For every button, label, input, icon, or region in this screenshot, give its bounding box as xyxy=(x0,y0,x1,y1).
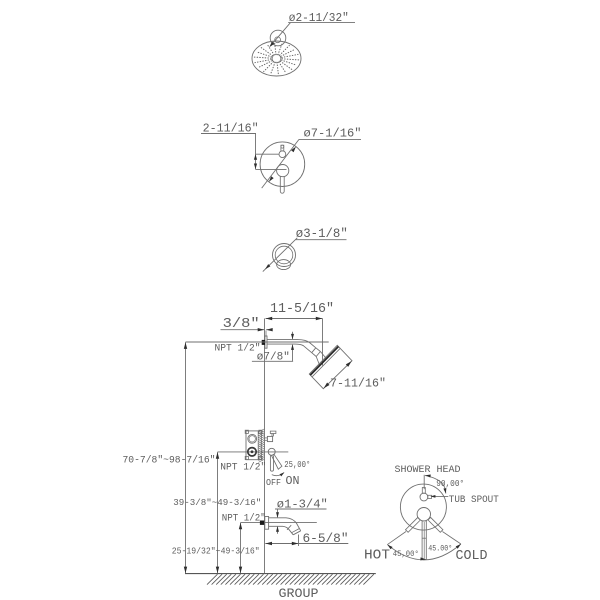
arrow down at ground xyxy=(216,567,219,574)
handle tilted 25 deg (on) position xyxy=(272,454,282,469)
handle vertical position xyxy=(422,521,426,560)
tub spout opening ellipse xyxy=(277,260,291,270)
valve upper port inner circle xyxy=(249,436,255,442)
arrow right at spout tip xyxy=(292,542,299,545)
swing arc arrowhead left xyxy=(387,545,392,550)
tub spout leader line xyxy=(432,495,449,497)
svg-text:GROUP: GROUP xyxy=(279,586,319,600)
spout centerline xyxy=(241,521,317,523)
arrow up at arm height xyxy=(184,342,187,349)
diverter knob link top xyxy=(264,437,267,439)
arrow down at ground xyxy=(184,567,187,574)
arm coupling nut lower edge xyxy=(312,353,317,357)
svg-text:HOT: HOT xyxy=(364,548,390,564)
valve height dimension line xyxy=(217,452,219,573)
svg-text:90,00°: 90,00° xyxy=(436,479,464,489)
svg-text:COLD: COLD xyxy=(456,548,488,564)
handle vertical center line xyxy=(423,522,425,559)
dimension tick up xyxy=(254,154,257,160)
shower arm wall stub (filled) xyxy=(262,340,265,345)
shower arm pipe top line xyxy=(267,340,316,348)
dimension dia 7/8 lower line xyxy=(292,345,294,362)
dimension 6-5/8 line xyxy=(265,543,298,545)
dimension 7-11/16 arrow at right corner xyxy=(346,361,352,367)
svg-text:3/8": 3/8" xyxy=(223,316,260,332)
valve body corner tab top-left xyxy=(245,430,248,433)
valve lower port circle (dark) xyxy=(248,448,256,456)
svg-text:39-3/8"~49-3/16": 39-3/8"~49-3/16" xyxy=(173,497,261,508)
svg-text:SHOWER HEAD: SHOWER HEAD xyxy=(395,464,461,475)
arrow right 11-5/16 xyxy=(316,317,323,320)
90 arc arrowhead bottom xyxy=(443,488,446,493)
arrow up at valve centerline xyxy=(216,452,219,459)
90 deg arc xyxy=(425,475,446,493)
dia 1-3/4 vertical line below pipe xyxy=(277,527,279,534)
svg-text:ON: ON xyxy=(286,475,300,488)
valve lower port center dot xyxy=(251,450,254,453)
diverter stem up xyxy=(422,488,425,494)
tub spout end face inner xyxy=(292,529,300,533)
diverter knob square xyxy=(267,436,272,441)
svg-text:ø7-1/16": ø7-1/16" xyxy=(304,128,362,141)
arrow up at spout pipe bottom xyxy=(276,526,279,532)
tub spout end face outer xyxy=(293,531,301,535)
valve trim plate circle xyxy=(260,142,305,187)
left lever extension line xyxy=(387,532,406,545)
dimension underline dia 7/8 xyxy=(252,360,293,362)
handle hub circle xyxy=(277,165,289,177)
valve centerline xyxy=(218,451,289,453)
svg-text:11-5/16": 11-5/16" xyxy=(270,302,334,317)
shower head face inner line xyxy=(312,349,340,378)
dimension underline dia 1-3/4 xyxy=(275,508,327,510)
valve body corner tab bottom-right xyxy=(259,456,262,459)
valve body corner tab top-right xyxy=(259,430,262,433)
diverter stem xyxy=(281,145,284,151)
diameter leader dia 3-1/8 xyxy=(263,238,298,272)
svg-text:45,00°: 45,00° xyxy=(393,550,419,559)
tub spout wall stub (filled) xyxy=(260,521,264,525)
svg-text:45.00°: 45.00° xyxy=(428,545,452,554)
svg-text:NPT 1/2": NPT 1/2" xyxy=(220,462,266,473)
wall vertical line xyxy=(264,319,266,574)
leader line for dia 2-11/32 xyxy=(271,23,291,46)
arm ball flare upper edge xyxy=(320,352,326,359)
svg-text:25,00°: 25,00° xyxy=(284,459,310,470)
dimension 3/8 line left part xyxy=(221,329,265,331)
dia 1-3/4 vertical line above pipe xyxy=(277,509,279,517)
left overall dimension line 70-7/8 xyxy=(185,342,187,573)
svg-text:25-19/32"~49-3/16": 25-19/32"~49-3/16" xyxy=(172,547,260,557)
flange face extension line xyxy=(265,331,267,337)
shower head body rectangle xyxy=(309,345,352,388)
90 arc arrowhead top xyxy=(425,475,430,478)
arm coupling nut upper edge xyxy=(316,348,321,352)
dimension 11-5/16 line xyxy=(266,318,323,320)
shower head top view: face ellipse xyxy=(252,41,301,76)
diverter knob link bottom xyxy=(264,439,267,441)
handle stem down xyxy=(280,176,284,193)
right lever extension line xyxy=(442,532,461,545)
tub spout leader arrowhead xyxy=(430,495,435,498)
dimension tick down xyxy=(254,164,257,170)
dimension underline dia 7-1/16 xyxy=(299,138,361,140)
dimension 2-11/16 extension line to handle hub xyxy=(256,168,287,170)
spout height dimension line xyxy=(240,523,242,574)
diverter stem cap xyxy=(281,145,284,148)
ground hatch xyxy=(207,574,374,584)
dimension underline dia 3-1/8 xyxy=(296,239,347,241)
handle joint line xyxy=(422,537,426,539)
valve upper port circle xyxy=(248,434,257,443)
arrow left at wall xyxy=(266,542,273,545)
diverter stem xyxy=(271,433,273,436)
shower arm pipe bottom line xyxy=(267,344,312,353)
dimension 3/8 line right part xyxy=(266,329,272,331)
arrow pointing right at wall xyxy=(258,328,265,331)
dimension underline xyxy=(288,22,355,24)
shower head spray face thick line xyxy=(310,347,338,376)
swing arc 45-45 xyxy=(387,544,461,560)
svg-text:TUB SPOUT: TUB SPOUT xyxy=(449,494,499,505)
small arrow at handle bottom xyxy=(420,557,426,560)
diverter knob circle xyxy=(279,151,286,158)
spout tip extension line xyxy=(298,535,300,547)
diverter pointer right (tub spout position) xyxy=(428,495,432,498)
tub spout end view inner circle xyxy=(275,246,293,264)
svg-text:7-11/16": 7-11/16" xyxy=(330,376,386,390)
dimension 7-11/16 arrow at bottom corner xyxy=(324,383,330,389)
shower head top view: spray nozzle dots xyxy=(254,43,298,75)
tub spout pipe bottom line xyxy=(269,526,294,535)
arm coupling nut line B xyxy=(316,352,320,357)
diverter stem cap xyxy=(270,431,276,433)
dimension 2-11/16 vertical line xyxy=(255,134,257,170)
arrow up at pipe bottom xyxy=(291,344,294,350)
arm centerline / height reference line xyxy=(186,341,329,343)
right extension line to shower head xyxy=(322,319,324,366)
dimension 2-11/16 underline xyxy=(201,133,256,135)
swing arc arrowhead right xyxy=(456,544,461,549)
handle left 45 position xyxy=(406,517,421,532)
handle hub circle xyxy=(417,508,430,521)
svg-text:70-7/8"~98-7/16": 70-7/8"~98-7/16" xyxy=(123,454,216,465)
handle pivot circle xyxy=(268,448,275,455)
arm ball flare lower edge xyxy=(316,357,320,366)
svg-text:OFF: OFF xyxy=(266,477,281,488)
tub spout joint line xyxy=(287,525,291,530)
valve wall hatch xyxy=(258,429,264,462)
swing arc arrowhead xyxy=(280,472,285,476)
svg-text:ø3-1/8": ø3-1/8" xyxy=(296,227,348,241)
ground line xyxy=(185,573,376,575)
tub spout pipe top line xyxy=(269,518,301,531)
arrow pointing left at flange face xyxy=(266,328,273,331)
arrow left 11-5/16 xyxy=(266,317,273,320)
leader arrowhead xyxy=(265,264,270,269)
dimension 2-11/16 extension line to diverter xyxy=(256,153,279,155)
handle right 45 position xyxy=(428,517,443,532)
dimension 6-5/8 underline xyxy=(299,543,349,545)
arrowhead at bottom of circle xyxy=(269,176,274,182)
svg-text:NPT 1/2": NPT 1/2" xyxy=(215,343,261,354)
tub spout flange plate xyxy=(265,517,269,530)
shower head top view: inlet inner circle xyxy=(275,37,281,43)
leader arrowhead xyxy=(269,42,274,48)
arrow down at spout pipe top xyxy=(276,512,279,518)
diameter leader line dia 7-1/16 xyxy=(262,139,299,188)
trim plate circle xyxy=(400,484,446,530)
svg-text:NPT 1/2": NPT 1/2" xyxy=(222,512,266,523)
shower arm flange plate xyxy=(265,336,267,348)
arrow down at ground xyxy=(239,567,242,574)
shower head top view: inlet connection circle xyxy=(270,30,286,46)
svg-text:ø7/8": ø7/8" xyxy=(257,352,290,364)
handle swing arc xyxy=(272,473,284,476)
handle vertical (off) position xyxy=(270,456,273,472)
diverter circle xyxy=(420,493,428,501)
shower head top view: center hub circle xyxy=(272,54,281,63)
shower head position reference line xyxy=(423,475,425,489)
arm coupling nut line A xyxy=(312,348,316,353)
tub spout end view outer circle xyxy=(273,244,296,267)
valve body corner tab bottom-left xyxy=(245,456,248,459)
arrow up at spout centerline xyxy=(239,523,242,530)
arrow down at pipe top xyxy=(291,334,294,340)
valve cartridge boundary line xyxy=(257,431,259,460)
dimension dia 7/8 upper line xyxy=(292,332,294,339)
arrowhead at top of circle xyxy=(291,147,296,153)
valve body outer rectangle xyxy=(246,431,261,460)
